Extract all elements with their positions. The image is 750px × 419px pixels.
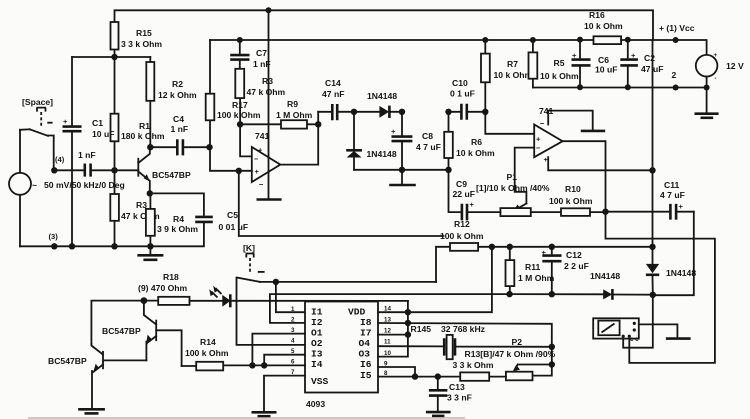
- svg-text:10 k Ohm: 10 k Ohm: [494, 70, 533, 80]
- svg-text:c c: c c: [630, 336, 639, 343]
- svg-text:1 nF: 1 nF: [78, 150, 96, 160]
- wire: long rail at y=40 feeding R16: [210, 39, 594, 41]
- junction: op-amp U1 V+ on top rail: [266, 7, 272, 13]
- svg-text:100 k Ohm: 100 k Ohm: [185, 348, 229, 358]
- wire: pin 2 to VDD long line: [270, 294, 510, 323]
- potentiometer P1 wiper arrow: [516, 204, 526, 210]
- svg-text:[Space]: [Space]: [22, 97, 53, 107]
- svg-text:2: 2: [291, 317, 295, 324]
- IC U3 4093: [305, 302, 378, 410]
- svg-text:BC547BP: BC547BP: [48, 356, 87, 366]
- svg-text:C9: C9: [456, 179, 467, 189]
- junction: stray net 2 dot upper: [673, 37, 679, 43]
- svg-text:32 768 kHz: 32 768 kHz: [441, 324, 485, 334]
- svg-text:12: 12: [384, 328, 391, 335]
- wire: lower rail continuing to diode and C2 column: [510, 293, 653, 296]
- svg-text:(9) 470 Ohm: (9) 470 Ohm: [138, 283, 188, 293]
- resistor R9 1M (feedback): [240, 99, 318, 129]
- potentiometer P1 10k 40%: [476, 172, 550, 216]
- wire: K contact to R12 left: [260, 281, 436, 283]
- wire: U2 V+ supply to Vcc column: [548, 157, 652, 170]
- capacitor C12 2.2uF: [542, 247, 589, 294]
- svg-text:1 M Ohm: 1 M Ohm: [518, 273, 555, 283]
- junction: crystal right / P2 net: [549, 344, 555, 350]
- junction: C7 top on y40 rail: [237, 37, 243, 43]
- junction: R7 bottom / C10 node: [482, 109, 488, 115]
- svg-text:R145: R145: [411, 324, 432, 334]
- crystal X1 32.768 kHz: [378, 324, 552, 359]
- svg-text:10 uF: 10 uF: [595, 65, 617, 75]
- svg-text:−: −: [540, 119, 545, 128]
- svg-text:R1: R1: [139, 121, 150, 131]
- junction: collector node / C4 / R2: [147, 144, 153, 150]
- resistor R10 100k: [531, 184, 606, 216]
- junction: lower rail / vertical diode / meter / C11 return: [650, 292, 656, 298]
- svg-text:3 3 k Ohm: 3 3 k Ohm: [453, 360, 494, 370]
- svg-text:3 9 k Ohm: 3 9 k Ohm: [157, 224, 198, 234]
- wire: pin 4 O2 from K pole: [237, 278, 306, 345]
- wire: x408 column pins 14-13-12-10: [378, 301, 408, 357]
- wire: U2 inverting input from P1 wiper: [515, 148, 535, 204]
- svg-text:I7: I7: [360, 328, 372, 339]
- wire: Vcc rail to 12V source: [621, 40, 707, 55]
- wire: rail y=247 from R12 to C2 column: [478, 246, 652, 248]
- capacitor C2 47uF: [620, 40, 638, 87]
- wire: +input branch down and across to R12 area: [239, 171, 444, 236]
- svg-text:+: +: [631, 51, 636, 60]
- svg-text:C8: C8: [422, 131, 433, 141]
- svg-text:+: +: [536, 135, 541, 144]
- transistor Q2 BC547BP (upper driver): [102, 301, 182, 367]
- svg-text:100 k Ohm: 100 k Ohm: [217, 110, 261, 120]
- svg-text:10 k Ohm: 10 k Ohm: [584, 21, 623, 31]
- ground: meter reference: [666, 337, 691, 340]
- junction: stray node dot (3): [51, 243, 57, 249]
- wire: pin 9 jog down to pin8 row: [378, 367, 415, 377]
- junction: pin9 on pin8 row: [412, 373, 418, 379]
- capacitor C9 22uF: [449, 170, 501, 221]
- wire: Vcc column down right side: [641, 40, 663, 247]
- junction: U2 V+ on C2 column: [649, 167, 655, 173]
- svg-text:50 mV/50 kHz/0 Deg: 50 mV/50 kHz/0 Deg: [44, 180, 125, 190]
- junction: pin1 branch on K wire: [273, 279, 279, 285]
- svg-text:1N4148: 1N4148: [367, 149, 397, 159]
- junction: stray net 2 dot lower: [673, 85, 679, 91]
- svg-text:R18: R18: [163, 272, 179, 282]
- junction: pin12 node: [405, 331, 411, 337]
- junction: pin5 jog on pin6 row: [261, 362, 267, 368]
- wire: pin 6 / R14 row: [223, 364, 305, 366]
- svg-text:+: +: [391, 127, 396, 136]
- junction: feedback node R3/R9/inv: [237, 121, 243, 127]
- svg-text:1: 1: [291, 306, 295, 313]
- wire: op-amp U1 output to C14 column: [280, 112, 318, 165]
- svg-text:1N4148: 1N4148: [367, 91, 397, 101]
- svg-text:2: 2: [672, 70, 677, 80]
- svg-text:(3): (3): [49, 232, 59, 241]
- potentiometer P2 (R13[B]/47k/90%): [465, 337, 556, 380]
- svg-text:100 k Ohm: 100 k Ohm: [440, 231, 484, 241]
- svg-text:C1: C1: [92, 118, 103, 128]
- svg-text:C13: C13: [449, 382, 465, 392]
- transistor Q1 BC547BP (lower): [48, 344, 103, 408]
- svg-text:I8: I8: [360, 317, 372, 328]
- svg-text:-: -: [715, 75, 717, 82]
- junction: R6 top / C10 wire: [445, 109, 451, 115]
- wire: meter path from output node down across to right edge: [606, 212, 715, 363]
- wire: U2 top supply to bar: [548, 111, 593, 130]
- wire: pin 12 stub: [378, 334, 408, 336]
- svg-text:I3: I3: [311, 349, 323, 360]
- capacitor C8 4.7uF: [391, 112, 441, 170]
- resistor R13 3.3k: [453, 360, 506, 381]
- resistor R1: [111, 57, 165, 170]
- svg-text:I5: I5: [360, 370, 372, 381]
- svg-text:O1: O1: [311, 328, 323, 339]
- junction: C12 top on rail: [549, 244, 555, 250]
- svg-text:22 uF: 22 uF: [453, 189, 475, 199]
- diode D2 1N4148 (shunt to lower rail): [346, 112, 397, 170]
- capacitor C13 3.3nF: [429, 377, 472, 411]
- wire: meter bottom terminal to rail node: [623, 295, 653, 348]
- svg-text:+ (1) Vcc: + (1) Vcc: [659, 23, 695, 33]
- svg-text:[1]/10 k Ohm /40%: [1]/10 k Ohm /40%: [476, 183, 550, 193]
- wire: Q1 collector up and across to R18 node: [91, 301, 143, 344]
- resistor R3 (47k feedback branch): [235, 69, 285, 125]
- junction: Q1/Q2 collectors / R18: [141, 297, 148, 304]
- junction: R15/R1/C1/R2 node: [111, 54, 117, 60]
- capacitor C5 0.01uF: [195, 210, 248, 232]
- junction: pin14 node: [405, 309, 411, 315]
- svg-text:741: 741: [255, 131, 270, 141]
- svg-text:C7: C7: [256, 48, 267, 58]
- svg-text:I2: I2: [311, 317, 323, 328]
- svg-text:10 k Ohm: 10 k Ohm: [456, 148, 495, 158]
- svg-text:R15: R15: [136, 28, 152, 38]
- svg-text:1N4148: 1N4148: [590, 271, 620, 281]
- meter M1: [593, 318, 639, 343]
- svg-text:4 7 uF: 4 7 uF: [660, 190, 685, 200]
- junction: C6 bottom: [577, 84, 583, 90]
- junction: C8 bottom / ground stub: [399, 167, 405, 173]
- wire: LED to pin14 column: [231, 300, 408, 302]
- svg-text:4: 4: [291, 338, 295, 345]
- junction: C4 / R17 column node: [206, 144, 212, 150]
- svg-text:P2: P2: [512, 337, 523, 347]
- svg-text:~: ~: [32, 180, 37, 190]
- capacitor C11 4.7uF: [606, 180, 694, 220]
- wire: U2 output down to R10/C11 node: [563, 141, 606, 212]
- ground: U1 V-: [257, 198, 282, 201]
- svg-text:+: +: [255, 167, 260, 176]
- svg-text:+: +: [714, 52, 718, 59]
- op-amp U2 741: [534, 106, 562, 164]
- svg-text:+: +: [572, 51, 577, 60]
- junction: C14 / series diode / shunt diode node: [351, 109, 357, 115]
- wire: meter right terminal to ground: [639, 324, 678, 337]
- capacitor C10 0.1uF: [449, 78, 486, 120]
- svg-text:0 01 uF: 0 01 uF: [219, 222, 249, 232]
- wire: lower rail diode/C8/R6: [354, 169, 449, 171]
- svg-text:O2: O2: [311, 338, 323, 349]
- svg-text:1N4148: 1N4148: [666, 268, 696, 278]
- svg-text:47 uF: 47 uF: [641, 64, 663, 74]
- ground: Q1 emitter: [78, 409, 105, 413]
- wire: C11 return down right side: [653, 212, 694, 296]
- svg-text:C6: C6: [598, 55, 609, 65]
- svg-text:2 2 uF: 2 2 uF: [564, 261, 589, 271]
- resistor R16 10k (horizontal on Vcc feed): [584, 10, 623, 44]
- svg-text:47 k Ohm: 47 k Ohm: [247, 87, 286, 97]
- svg-text:R2: R2: [172, 79, 183, 89]
- svg-text:0 1 uF: 0 1 uF: [450, 89, 475, 99]
- wire: R7/C10 node to U2 + input: [485, 112, 534, 134]
- faint scan edge at bottom: [28, 417, 465, 419]
- resistor R4: [146, 193, 199, 246]
- LED D5: [190, 286, 231, 308]
- svg-text:R14: R14: [200, 337, 216, 347]
- svg-text:3 3 nF: 3 3 nF: [447, 393, 472, 403]
- capacitor C6 10uF: [572, 40, 618, 87]
- switch K (pushbutton): [237, 243, 265, 282]
- wire: pin 7 VSS to ground: [264, 376, 305, 412]
- junction: rail end on C2 column / diode top: [649, 244, 655, 250]
- svg-text:C14: C14: [325, 78, 341, 88]
- capacitor C7 1nF: [230, 40, 270, 69]
- diode D3 1N4148 (horizontal on lower rail): [590, 271, 620, 300]
- svg-text:BC547BP: BC547BP: [152, 170, 191, 180]
- wire: ground return rail (3): [20, 223, 204, 246]
- svg-text:O3: O3: [359, 349, 371, 360]
- junction: diode cathode / C8 top: [399, 109, 405, 115]
- svg-text:[K]: [K]: [243, 243, 255, 253]
- transistor Q3 BC547BP (input stage): [138, 147, 191, 193]
- svg-text:4093: 4093: [306, 399, 325, 409]
- wire: top supply rail from R15 to right corner down to Vcc rail: [115, 10, 654, 40]
- AC source V1 50mV/50kHz: [9, 129, 125, 246]
- svg-text:1 nF: 1 nF: [171, 124, 189, 134]
- svg-text:3 3 k Ohm: 3 3 k Ohm: [121, 39, 162, 49]
- switch [Space] (pushbutton): [22, 97, 54, 170]
- op-amp U1 741: [252, 131, 280, 189]
- junction: O1 column on pin6 row: [249, 362, 255, 368]
- svg-text:I6: I6: [360, 359, 372, 370]
- svg-text:10 k Ohm: 10 k Ohm: [540, 71, 579, 81]
- svg-text:I4: I4: [311, 359, 323, 370]
- svg-text:+: +: [679, 202, 684, 211]
- svg-text:R13[B]/47 k Ohm /90%: R13[B]/47 k Ohm /90%: [465, 349, 556, 359]
- junction: pin13 node: [405, 320, 411, 326]
- ground: 12V source return: [695, 88, 719, 118]
- junction: C13 branch: [435, 373, 441, 379]
- svg-text:12 k Ohm: 12 k Ohm: [158, 90, 197, 100]
- wire: Q2 emitter to Q1 base: [103, 359, 146, 361]
- capacitor 1nF (input coupling): [54, 150, 138, 177]
- svg-text:11: 11: [384, 339, 391, 346]
- svg-text:R4: R4: [173, 214, 184, 224]
- diode D1 1N4148 (series): [354, 91, 402, 118]
- svg-text:100 k Ohm: 100 k Ohm: [549, 196, 593, 206]
- svg-text:−: −: [259, 180, 264, 189]
- svg-text:−: −: [254, 155, 259, 164]
- wire: pin 14 VDD row to feed column: [378, 247, 492, 312]
- junction: source bottom node: [704, 85, 710, 91]
- capacitor C4: [150, 114, 209, 155]
- svg-text:C11: C11: [664, 180, 680, 190]
- svg-text:O4: O4: [359, 338, 371, 349]
- svg-text:C12: C12: [566, 250, 582, 260]
- resistor R3 (47k lower left): [110, 170, 160, 246]
- wire: node A (R15 bottom) to C1 top and R2 top: [72, 56, 150, 58]
- wire: non-inverting input wire from R17/C4 node: [210, 147, 252, 171]
- wire: mid supply rail y=87.5 to 12V source: [533, 87, 707, 89]
- junction: C2 top on Vcc rail: [625, 37, 631, 43]
- resistor R11 1M: [506, 247, 555, 294]
- junction: VDD feed column on rail: [489, 244, 495, 250]
- resistor R7 10k: [481, 40, 533, 112]
- junction: R6 bottom node: [445, 167, 451, 173]
- junction: C6 top on y40 rail: [577, 37, 583, 43]
- svg-text:+: +: [258, 146, 263, 155]
- svg-text:P1: P1: [507, 172, 518, 182]
- svg-text:−: −: [536, 144, 541, 153]
- junction: R11 bottom on lower rail: [506, 291, 512, 297]
- junction: C12 bottom on lower rail: [549, 291, 555, 297]
- capacitor C1 (polarized 10uF): [63, 57, 115, 246]
- svg-text:R6: R6: [471, 137, 482, 147]
- wire: pin 3 O1 feedback column: [252, 334, 305, 366]
- svg-text:+: +: [63, 117, 68, 126]
- svg-text:R10: R10: [565, 184, 581, 194]
- source 12V: [696, 52, 744, 88]
- junction: R9 right / output column: [315, 121, 321, 127]
- junction: R7 top on y40 rail: [482, 37, 488, 43]
- svg-text:VSS: VSS: [311, 376, 329, 387]
- junction: +input branch node: [236, 168, 242, 174]
- svg-text:+: +: [470, 200, 475, 209]
- svg-text:10 uF: 10 uF: [92, 129, 114, 139]
- svg-text:C4: C4: [173, 114, 184, 124]
- resistor R14 100k: [182, 337, 229, 370]
- svg-text:C5: C5: [227, 210, 238, 220]
- ground below R4 rail node: [137, 246, 163, 259]
- junction: output/R10/C11 node: [602, 209, 608, 215]
- capacitor C14 47nF: [318, 78, 354, 120]
- junction: R5 top on y40 rail: [530, 37, 536, 43]
- junction: R1 bottom / R3 top / base wire: [111, 167, 117, 173]
- junction: emitter node / R4 / C5 wire: [147, 190, 153, 196]
- svg-text:12 V: 12 V: [726, 61, 744, 71]
- svg-text:R11: R11: [525, 262, 541, 272]
- ground bar: U2 top supply: [581, 130, 605, 133]
- svg-text:R16: R16: [589, 10, 605, 20]
- wire: pin 13 row to crystal net: [378, 323, 552, 347]
- svg-text:VDD: VDD: [348, 307, 366, 318]
- svg-text:47 nF: 47 nF: [322, 89, 344, 99]
- resistor R5 10k: [529, 40, 580, 88]
- svg-text:R7: R7: [507, 59, 518, 69]
- svg-text:+: +: [542, 248, 547, 257]
- wire: pin 1 column: [276, 282, 305, 312]
- wire: pin 5 jog: [264, 355, 305, 366]
- junction: R11 top on rail: [507, 244, 513, 250]
- wire: U1 supply column from top rail through to ground: [268, 10, 270, 198]
- resistor R17 100k: [206, 40, 261, 147]
- svg-text:R12: R12: [454, 219, 470, 229]
- svg-text:1 M Ohm: 1 M Ohm: [276, 110, 313, 120]
- svg-text:C2: C2: [644, 53, 655, 63]
- resistor R12 100k: [436, 219, 484, 282]
- wire: emitter rail to C5: [150, 193, 204, 216]
- node (4): [51, 155, 65, 174]
- ground: below C8: [389, 170, 416, 185]
- junction: C2 bottom: [625, 84, 631, 90]
- svg-text:6: 6: [291, 359, 295, 366]
- svg-text:R9: R9: [287, 99, 298, 109]
- resistor R18 470 Ohm: [138, 272, 190, 305]
- resistor R2: [146, 57, 197, 147]
- svg-text:4 7 uF: 4 7 uF: [416, 142, 441, 152]
- wire: pin 8 row to R13: [378, 376, 460, 378]
- svg-text:(4): (4): [55, 155, 65, 164]
- ground: VSS: [252, 412, 277, 416]
- svg-text:R5: R5: [554, 58, 565, 68]
- wire: inverting input drop from feedback node: [240, 124, 252, 156]
- resistor R15: [111, 22, 163, 57]
- junction: C1 bottom on rail: [69, 243, 75, 249]
- svg-text:BC547BP: BC547BP: [102, 326, 141, 336]
- junction: R4 bottom / ground stub: [147, 243, 153, 249]
- svg-text:C10: C10: [452, 78, 468, 88]
- diode D4 1N4148 (vertical on C2 column): [646, 247, 696, 295]
- svg-text:180 k Ohm: 180 k Ohm: [121, 131, 165, 141]
- junction: R3 bottom on rail: [111, 243, 117, 249]
- resistor R6 10k: [444, 112, 495, 170]
- ground: below C13: [426, 412, 451, 416]
- svg-text:I1: I1: [311, 307, 323, 318]
